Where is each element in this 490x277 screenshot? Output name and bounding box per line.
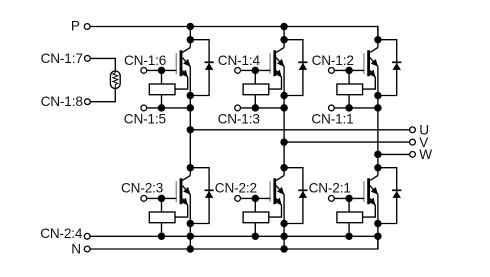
terminal CN-2:4 [84, 233, 90, 239]
wire gate node to R3 [348, 70, 350, 84]
IGBT Q2 [270, 48, 284, 78]
wire CN-1:3 rail [241, 107, 285, 109]
wire P rail to Q3 collector [377, 27, 379, 48]
terminal W [410, 152, 416, 158]
junction CN-2:4 rail / R5 [252, 233, 258, 239]
svg-text:CN-2:3: CN-2:3 [121, 180, 163, 195]
svg-text:CN-1:4: CN-1:4 [218, 53, 261, 68]
junction Q3 emitter / D3 anode [375, 92, 381, 98]
svg-text:W: W [419, 147, 432, 162]
wire R3 to kelvin emitter of Q3 [363, 77, 376, 89]
wire R5 to CN-2:4 rail [254, 223, 256, 237]
junction Q2 emitter / D2 anode [281, 92, 287, 98]
diode D4 [190, 168, 213, 224]
wire R4 to kelvin emitter of Q4 [175, 205, 188, 217]
wire R6 to CN-2:4 rail [348, 223, 350, 237]
junction CN-2:4 rail / Q6 emitter [375, 233, 381, 239]
wire R4 to CN-2:4 rail [161, 223, 163, 237]
wire CN-2:4 rail [90, 235, 378, 237]
junction gate / R5 [252, 195, 258, 201]
junction phase W output [375, 151, 381, 157]
wire phase V output line [284, 141, 410, 143]
svg-text:CN-1:6: CN-1:6 [124, 53, 166, 68]
diode D1 [190, 40, 213, 96]
resistor R3 (gate-emitter) [337, 84, 363, 95]
svg-text:CN-1:1: CN-1:1 [311, 112, 353, 127]
junction CN-1:1 / emitter main [375, 105, 381, 111]
svg-text:CN-1:5: CN-1:5 [124, 112, 166, 127]
terminal P [84, 24, 90, 30]
junction gate / R6 [346, 195, 352, 201]
wire Q1 emitter main line [189, 66, 191, 175]
terminal N [84, 246, 90, 252]
svg-text:CN-1:3: CN-1:3 [218, 112, 260, 127]
wire CN-1:2 to gate of Q3 [334, 69, 364, 71]
wire P rail to Q2 collector [283, 27, 285, 48]
junction CN-2:4 rail / Q4 emitter [187, 233, 193, 239]
junction Q4 collector / D4 branch [187, 165, 193, 171]
wire Q3 emitter main line [377, 66, 379, 175]
junction CN-2:4 rail / R4 [158, 233, 164, 239]
terminal CN-1:5 (emitter sense Q1) [141, 105, 147, 111]
terminal CN-1:3 (emitter sense Q2) [235, 105, 241, 111]
diode D3 [378, 40, 401, 96]
terminal CN-2:1 (gate Q6) [329, 196, 335, 202]
resistor R1 (gate-emitter) [149, 84, 175, 95]
wire gate node to R5 [254, 198, 256, 212]
diode D6 [378, 168, 401, 224]
junction Q1 emitter / D1 anode [187, 92, 193, 98]
wire CN-1:4 to gate of Q2 [241, 69, 271, 71]
wire R5 to kelvin emitter of Q5 [269, 205, 282, 217]
junction N rail / Q4 emitter [187, 246, 193, 252]
wire CN-1:7 to thermistor [90, 58, 115, 71]
wire CN-1:6 to gate of Q1 [147, 69, 177, 71]
wire Q5 emitter to N rail [283, 194, 285, 249]
junction gate / R2 [252, 67, 258, 73]
junction CN-2:4 rail / Q5 emitter [281, 233, 287, 239]
junction gate / R3 [346, 67, 352, 73]
terminal CN-2:3 (gate Q4) [141, 196, 147, 202]
junction Q5 emitter / D5 anode [281, 220, 287, 226]
svg-text:CN-2:4: CN-2:4 [40, 226, 83, 241]
junction Q1 collector / D1 branch [187, 37, 193, 43]
wire R2 to CN-1:3 rail [254, 95, 256, 108]
resistor R5 (gate-emitter) [243, 212, 269, 223]
wire N rail [90, 236, 378, 249]
resistor R4 (gate-emitter) [149, 212, 175, 223]
wire phase W output line [378, 153, 410, 155]
wire phase U output line [190, 129, 409, 131]
svg-text:P: P [71, 18, 80, 33]
junction Q2 collector / D2 branch [281, 37, 287, 43]
diode D2 [284, 40, 307, 96]
junction P rail / phase V [281, 23, 287, 29]
resistor R6 (gate-emitter) [337, 212, 363, 223]
wire Q6 emitter to N rail [377, 194, 379, 249]
wire Q2 emitter main line [283, 66, 285, 175]
terminal CN-1:4 (gate Q2) [235, 68, 241, 74]
wire gate node to R6 [348, 198, 350, 212]
wire thermistor to CN-1:8 [90, 89, 115, 102]
wire gate node to R1 [161, 70, 163, 84]
wire R2 to kelvin emitter of Q2 [269, 77, 282, 89]
wire R6 to kelvin emitter of Q6 [363, 205, 376, 217]
terminal CN-2:2 (gate Q5) [235, 196, 241, 202]
wire R3 to CN-1:1 rail [348, 95, 350, 108]
junction Q3 collector / D3 branch [375, 37, 381, 43]
wire CN-1:1 rail [334, 107, 378, 109]
wire P rail to Q1 collector [189, 27, 191, 48]
wire gate node to R4 [161, 198, 163, 212]
resistor R2 (gate-emitter) [243, 84, 269, 95]
IGBT Q6 [364, 176, 378, 206]
wire R1 to kelvin emitter of Q1 [175, 77, 188, 89]
terminal CN-1:1 (emitter sense Q3) [329, 105, 335, 111]
terminal CN-1:6 (gate Q1) [141, 68, 147, 74]
junction CN-1:5 / R1 [158, 105, 164, 111]
wire Q4 emitter to N rail [189, 194, 191, 249]
junction Q6 emitter / D6 anode [375, 220, 381, 226]
wire gate node to R2 [254, 70, 256, 84]
junction N rail / Q5 emitter [281, 246, 287, 252]
junction CN-1:1 / R3 [346, 105, 352, 111]
svg-text:CN-1:2: CN-1:2 [312, 53, 354, 68]
junction CN-2:4 rail / R6 [346, 233, 352, 239]
svg-text:CN-2:2: CN-2:2 [215, 180, 257, 195]
junction CN-1:3 / R2 [252, 105, 258, 111]
IGBT Q3 [364, 48, 378, 78]
junction Q4 emitter / D4 anode [187, 220, 193, 226]
wire CN-2:2 to gate of Q5 [241, 197, 271, 199]
junction phase V output [281, 139, 287, 145]
junction gate / R1 [158, 67, 164, 73]
wire CN-2:3 to gate of Q4 [147, 197, 177, 199]
junction CN-1:3 / emitter main [281, 105, 287, 111]
terminal CN-1:8 [85, 99, 91, 105]
IGBT Q4 [176, 176, 190, 206]
terminal CN-1:7 [85, 56, 91, 62]
wire R1 to CN-1:5 rail [161, 95, 163, 108]
junction phase U output [187, 127, 193, 133]
svg-text:N: N [71, 241, 81, 256]
junction Q5 collector / D5 branch [281, 165, 287, 171]
terminal V [410, 139, 416, 145]
wire CN-2:1 to gate of Q6 [334, 197, 364, 199]
junction CN-1:5 / emitter main [187, 105, 193, 111]
IGBT Q5 [270, 176, 284, 206]
wire P rail [90, 27, 378, 40]
terminal CN-1:2 (gate Q3) [329, 68, 335, 74]
junction Q6 collector / D6 branch [375, 165, 381, 171]
terminal U [410, 127, 416, 133]
junction gate / R4 [158, 195, 164, 201]
junction P rail / phase U [187, 23, 193, 29]
svg-text:CN-1:7: CN-1:7 [41, 51, 83, 66]
thermistor TH1 [110, 71, 120, 89]
IGBT Q1 [176, 48, 190, 78]
svg-text:CN-1:8: CN-1:8 [41, 94, 83, 109]
diode D5 [284, 168, 307, 224]
svg-text:CN-2:1: CN-2:1 [309, 180, 351, 195]
wire CN-1:5 rail [147, 107, 191, 109]
